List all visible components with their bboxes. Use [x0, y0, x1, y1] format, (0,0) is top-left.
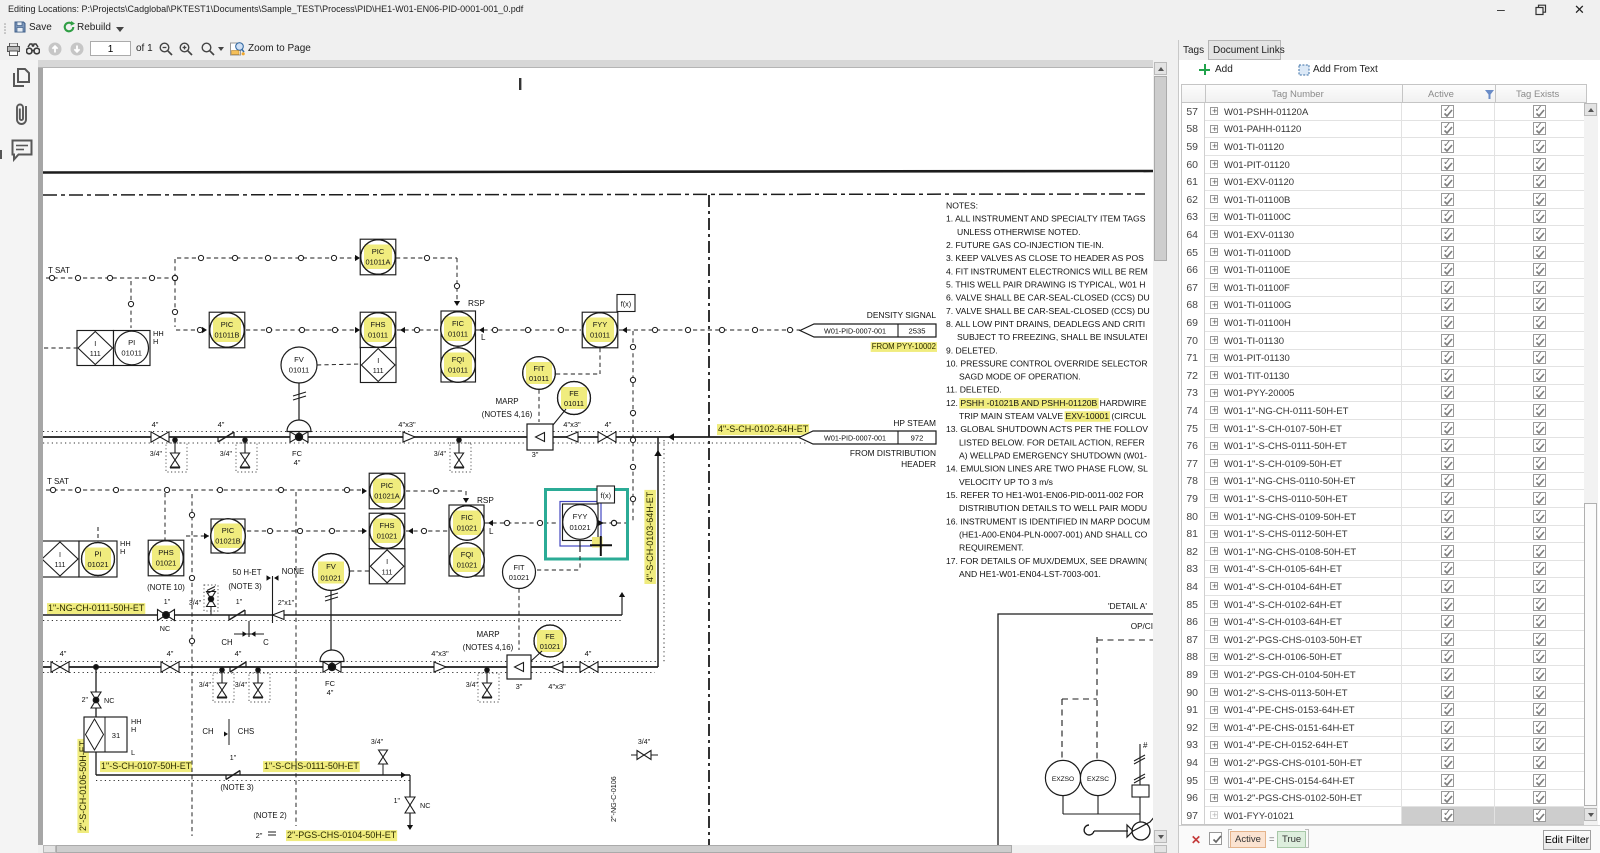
svg-text:RSP: RSP — [468, 299, 485, 308]
svg-text:01011: 01011 — [529, 374, 549, 383]
svg-text:(NOTES 4,16): (NOTES 4,16) — [463, 643, 514, 652]
svg-text:01011B: 01011B — [215, 331, 240, 340]
svg-text:A) WELLPAD EMERGENCY SHUTDOWN: A) WELLPAD EMERGENCY SHUTDOWN (W01- — [959, 451, 1147, 461]
svg-text:EXZSC: EXZSC — [1087, 776, 1109, 783]
svg-text:01021: 01021 — [569, 523, 590, 532]
svg-text:HEADER: HEADER — [901, 459, 936, 469]
svg-text:1. ALL INSTRUMENT AND SPECIALT: 1. ALL INSTRUMENT AND SPECIALTY ITEM TAG… — [946, 214, 1146, 224]
svg-text:972: 972 — [911, 434, 924, 443]
svg-text:FV: FV — [294, 355, 305, 364]
svg-text:2. FUTURE GAS CO-INJECTION TIE: 2. FUTURE GAS CO-INJECTION TIE-IN. — [946, 240, 1104, 250]
svg-text:LISTED BELOW. FOR DETAIL ACTIO: LISTED BELOW. FOR DETAIL ACTION, REFER — [959, 437, 1145, 447]
svg-text:L: L — [481, 333, 486, 342]
svg-text:W01-PID-0007-001: W01-PID-0007-001 — [824, 327, 886, 336]
svg-text:OP/CI: OP/CI — [1131, 622, 1153, 631]
svg-text:4. FIT INSTRUMENT ELECTRONICS: 4. FIT INSTRUMENT ELECTRONICS WILL BE RE… — [946, 266, 1148, 276]
svg-text:FYY: FYY — [573, 512, 588, 521]
svg-text:1": 1" — [230, 755, 237, 762]
svg-text:C: C — [263, 638, 269, 647]
svg-text:NC: NC — [160, 624, 170, 633]
svg-text:1": 1" — [394, 798, 401, 805]
svg-text:01021: 01021 — [509, 573, 530, 582]
svg-text:14. EMULSION LINES ARE TWO PHA: 14. EMULSION LINES ARE TWO PHASE FLOW, S… — [946, 464, 1148, 474]
svg-text:PIC: PIC — [372, 247, 385, 256]
svg-text:H: H — [131, 725, 136, 734]
svg-text:1"-S-CHS-0111-50H-ET: 1"-S-CHS-0111-50H-ET — [264, 761, 359, 771]
svg-text:4": 4" — [235, 649, 242, 658]
svg-text:111: 111 — [382, 567, 393, 576]
svg-text:DISTRIBUTION DETAILS TO WELL P: DISTRIBUTION DETAILS TO WELL PAIR MODU — [959, 503, 1147, 513]
svg-text:f(x): f(x) — [621, 300, 631, 309]
svg-text:3/4": 3/4" — [199, 682, 212, 689]
svg-text:FHS: FHS — [371, 320, 386, 329]
svg-text:17. FOR DETAILS OF MUX/DEMUX,: 17. FOR DETAILS OF MUX/DEMUX, SEE DRAWIN… — [946, 556, 1147, 566]
svg-text:f(x): f(x) — [601, 491, 611, 500]
svg-text:4"-S-CH-0103-64H-ET: 4"-S-CH-0103-64H-ET — [645, 491, 655, 582]
svg-text:CHS: CHS — [238, 727, 254, 736]
svg-text:1": 1" — [164, 599, 171, 606]
svg-text:9. DELETED.: 9. DELETED. — [946, 345, 998, 355]
svg-text:111: 111 — [373, 366, 384, 375]
svg-text:01011: 01011 — [289, 366, 310, 375]
svg-text:12. PSHH -01021B AND PSHH-0112: 12. PSHH -01021B AND PSHH-01120B HARDWIR… — [946, 398, 1147, 408]
svg-text:1"-NG-CH-0111-50H-ET: 1"-NG-CH-0111-50H-ET — [48, 603, 145, 613]
svg-text:SAGD MODE OF OPERATION.: SAGD MODE OF OPERATION. — [959, 372, 1081, 382]
svg-text:I: I — [59, 550, 61, 559]
svg-text:PIC: PIC — [381, 481, 394, 490]
svg-text:CH: CH — [202, 727, 213, 736]
svg-text:FE: FE — [569, 389, 579, 398]
svg-text:10. PRESSURE CONTROL OVERRIDE: 10. PRESSURE CONTROL OVERRIDE SELECTOR — [946, 358, 1148, 368]
svg-text:01011: 01011 — [121, 349, 142, 358]
svg-text:2"-NG-C-0106: 2"-NG-C-0106 — [609, 776, 618, 822]
svg-text:T SAT: T SAT — [47, 477, 69, 486]
svg-text:I: I — [386, 557, 388, 566]
svg-text:01021: 01021 — [320, 574, 341, 583]
svg-text:2": 2" — [82, 697, 89, 704]
svg-text:FQI: FQI — [461, 550, 474, 559]
svg-text:2": 2" — [256, 831, 263, 840]
svg-text:11. DELETED.: 11. DELETED. — [946, 385, 1002, 395]
svg-text:01021: 01021 — [457, 561, 478, 570]
svg-text:3": 3" — [532, 450, 539, 459]
svg-text:16. INSTRUMENT IS IDENTIFIED I: 16. INSTRUMENT IS IDENTIFIED IN MARP DOC… — [946, 516, 1150, 526]
svg-text:4": 4" — [167, 649, 174, 658]
svg-text:01021: 01021 — [540, 642, 561, 651]
svg-text:PI: PI — [128, 338, 135, 347]
svg-text:'DETAIL A': 'DETAIL A' — [1108, 601, 1147, 611]
svg-text:(NOTE 10): (NOTE 10) — [147, 583, 185, 592]
svg-text:FROM DISTRIBUTION: FROM DISTRIBUTION — [850, 448, 936, 458]
svg-text:3/4": 3/4" — [220, 451, 233, 458]
svg-text:01011: 01011 — [590, 331, 610, 340]
svg-text:3/4": 3/4" — [434, 451, 447, 458]
svg-text:3": 3" — [516, 682, 523, 691]
svg-text:4": 4" — [605, 420, 612, 429]
svg-text:L: L — [131, 748, 135, 757]
svg-text:4": 4" — [294, 458, 301, 467]
svg-text:FC: FC — [292, 449, 303, 458]
svg-text:111: 111 — [55, 560, 66, 569]
svg-text:01021A: 01021A — [374, 492, 400, 501]
svg-text:13. GLOBAL SHUTDOWN ACTS PER T: 13. GLOBAL SHUTDOWN ACTS PER THE FOLLOV — [946, 424, 1148, 434]
svg-text:01021B: 01021B — [215, 537, 241, 546]
svg-text:4"x3": 4"x3" — [548, 682, 566, 691]
svg-text:UNLESS OTHERWISE NOTED.: UNLESS OTHERWISE NOTED. — [957, 227, 1081, 237]
svg-text:3/4": 3/4" — [150, 451, 163, 458]
svg-text:8. ALL LOW PINT DRAINS, DEADLE: 8. ALL LOW PINT DRAINS, DEADLEGS AND CRI… — [946, 319, 1145, 329]
svg-text:PI: PI — [94, 550, 101, 559]
svg-text:MARP: MARP — [495, 397, 518, 406]
svg-text:(NOTE 3): (NOTE 3) — [220, 783, 254, 792]
svg-text:2"-PGS-CHS-0104-50H-ET: 2"-PGS-CHS-0104-50H-ET — [287, 830, 397, 840]
svg-text:50 H-ET: 50 H-ET — [232, 568, 261, 577]
svg-text:FIC: FIC — [452, 319, 465, 328]
svg-text:EXZSO: EXZSO — [1052, 776, 1074, 783]
svg-text:2"-S-CH-0106-50H-ET: 2"-S-CH-0106-50H-ET — [78, 740, 88, 831]
svg-text:(NOTE 3): (NOTE 3) — [228, 582, 262, 591]
svg-text:CH: CH — [221, 638, 232, 647]
svg-text:NC: NC — [420, 801, 430, 810]
svg-text:T SAT: T SAT — [48, 266, 70, 275]
svg-text:4": 4" — [585, 649, 592, 658]
svg-text:2535: 2535 — [909, 327, 926, 336]
svg-text:1"-S-CH-0107-50H-ET: 1"-S-CH-0107-50H-ET — [101, 761, 192, 771]
svg-text:FE: FE — [545, 632, 555, 641]
svg-text:DENSITY SIGNAL: DENSITY SIGNAL — [867, 310, 937, 320]
svg-text:3/4": 3/4" — [466, 682, 479, 689]
svg-text:5. THIS WELL PAIR DRAWING IS T: 5. THIS WELL PAIR DRAWING IS TYPICAL, W0… — [946, 279, 1145, 289]
svg-text:FV: FV — [326, 562, 337, 571]
svg-text:FROM PYY-10002: FROM PYY-10002 — [872, 342, 936, 351]
svg-text:VELOCITY UP TO 3 m/s: VELOCITY UP TO 3 m/s — [959, 477, 1053, 487]
svg-text:111: 111 — [90, 349, 101, 358]
svg-text:PIC: PIC — [221, 320, 234, 329]
svg-text:4": 4" — [152, 420, 159, 429]
svg-text:7. VALVE SHALL BE CAR-SEAL-CLO: 7. VALVE SHALL BE CAR-SEAL-CLOSED (CCS) … — [946, 306, 1150, 316]
svg-text:1": 1" — [236, 599, 243, 606]
svg-text:01011: 01011 — [368, 331, 388, 340]
svg-text:FIC: FIC — [461, 513, 474, 522]
svg-text:01011: 01011 — [564, 399, 584, 408]
svg-text:31: 31 — [112, 731, 120, 740]
svg-text:H: H — [153, 337, 158, 346]
svg-text:RSP: RSP — [477, 496, 494, 505]
svg-text:3/4": 3/4" — [371, 739, 384, 746]
svg-text:2"x1": 2"x1" — [278, 600, 295, 607]
svg-text:6. VALVE SHALL BE CAR-SEAL-CLO: 6. VALVE SHALL BE CAR-SEAL-CLOSED (CCS) … — [946, 293, 1150, 303]
svg-text:4"x3": 4"x3" — [563, 420, 581, 429]
svg-text:NOTES:: NOTES: — [946, 201, 978, 211]
svg-text:(HE1-A00-EN04-PLN-0007-001) AN: (HE1-A00-EN04-PLN-0007-001) AND SHALL CO — [959, 530, 1148, 540]
svg-text:4": 4" — [218, 420, 225, 429]
svg-text:L: L — [489, 527, 494, 536]
svg-text:FHS: FHS — [380, 521, 395, 530]
svg-text:FC: FC — [325, 679, 336, 688]
svg-text:FYY: FYY — [593, 320, 608, 329]
svg-text:3/4": 3/4" — [638, 739, 651, 746]
svg-text:4"-S-CH-0102-64H-ET: 4"-S-CH-0102-64H-ET — [718, 424, 809, 434]
svg-text:(NOTES 4,16): (NOTES 4,16) — [482, 410, 533, 419]
svg-text:4"x3": 4"x3" — [431, 649, 449, 658]
svg-text:FIT: FIT — [533, 364, 545, 373]
svg-text:3/4": 3/4" — [189, 600, 202, 607]
svg-text:FIT: FIT — [513, 563, 525, 572]
svg-text:PHS: PHS — [158, 548, 173, 557]
svg-text:4"x3": 4"x3" — [398, 420, 416, 429]
svg-text:3. KEEP VALVES AS CLOSE TO HEA: 3. KEEP VALVES AS CLOSE TO HEADER AS POS — [946, 253, 1144, 263]
svg-text:I: I — [94, 339, 96, 348]
svg-text:TRIP MAIN STEAM VALVE EXV-1000: TRIP MAIN STEAM VALVE EXV-10001 (CIRCUL — [959, 411, 1146, 421]
svg-text:NC: NC — [104, 696, 114, 705]
svg-text:3/4": 3/4" — [235, 682, 248, 689]
svg-text:MARP: MARP — [476, 630, 499, 639]
svg-text:HP STEAM: HP STEAM — [893, 418, 936, 428]
svg-text:01011A: 01011A — [366, 258, 391, 267]
svg-text:01021: 01021 — [377, 532, 398, 541]
svg-text:SUBJECT TO FREEZING, SHALL BE: SUBJECT TO FREEZING, SHALL BE INSULATEI — [957, 332, 1148, 342]
svg-text:(NOTE 2): (NOTE 2) — [253, 811, 287, 820]
svg-text:01011: 01011 — [448, 330, 468, 339]
svg-text:NONE: NONE — [282, 567, 305, 576]
svg-text:REQUIREMENT.: REQUIREMENT. — [959, 543, 1024, 553]
svg-text:15. REFER TO HE1-W01-EN06-PID-: 15. REFER TO HE1-W01-EN06-PID-0011-002 F… — [946, 490, 1144, 500]
svg-text:#: # — [1143, 741, 1148, 750]
svg-text:I: I — [377, 356, 379, 365]
svg-text:01021: 01021 — [87, 560, 108, 569]
svg-text:4": 4" — [60, 649, 67, 658]
svg-text:W01-PID-0007-001: W01-PID-0007-001 — [824, 434, 886, 443]
svg-text:PIC: PIC — [222, 526, 235, 535]
svg-text:FQI: FQI — [452, 355, 465, 364]
svg-text:4": 4" — [327, 688, 334, 697]
svg-text:01011: 01011 — [448, 366, 468, 375]
svg-text:H: H — [120, 547, 125, 556]
svg-text:01021: 01021 — [156, 559, 177, 568]
svg-text:01021: 01021 — [457, 524, 478, 533]
svg-text:AND HE1-W01-EN04-LST-7003-001.: AND HE1-W01-EN04-LST-7003-001. — [959, 569, 1101, 579]
